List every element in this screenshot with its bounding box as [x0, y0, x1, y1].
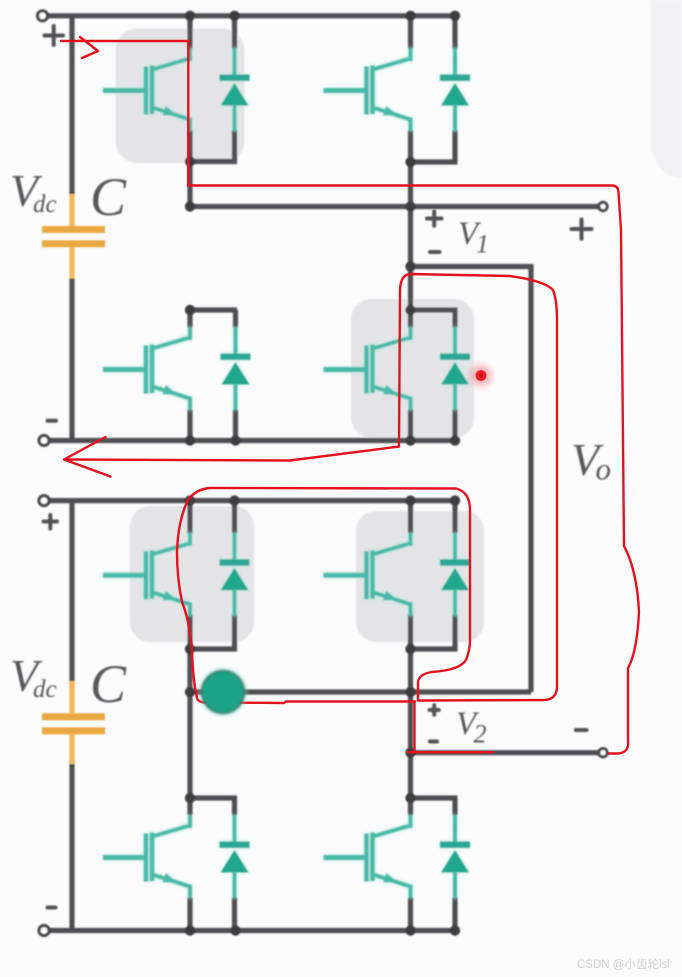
transistor Q4 (IGBT bottom-right bridge 1) — [324, 327, 411, 410]
transistor Q3 (IGBT bottom-left bridge 1) — [103, 327, 190, 410]
wire: diode D2 branch top — [452, 14, 457, 49]
polarity - bridge1 bottom-left — [48, 419, 57, 423]
wire: diode D5 branch top — [232, 499, 237, 534]
wire: leg Q8 emitter stub — [408, 898, 413, 931]
highlight box (top-left IGBT bridge 2) — [130, 506, 254, 642]
svg-text:2: 2 — [474, 720, 487, 749]
wire: node bar Q5/D5 — [187, 646, 237, 651]
terminal: V1 output — [599, 202, 607, 210]
wire: diode D4 branch — [452, 310, 457, 441]
polarity + V1 near rail — [427, 212, 442, 226]
red annotation: hidden segment under V2 rail — [470, 752, 604, 754]
svg-text:1: 1 — [476, 230, 489, 259]
wire: top rail bridge 2 — [44, 498, 458, 503]
wire: diode D5 branch bottom — [232, 615, 237, 650]
polarity + V1 right — [572, 220, 592, 239]
wire: diode D8 branch — [452, 798, 457, 931]
node dots bottom rail 2 — [185, 925, 195, 935]
node dot Q1 emitter — [185, 156, 195, 166]
red annotation: arrowhead bottom-left — [64, 437, 111, 477]
wire: diode D3 branch — [233, 310, 238, 441]
red annotation: arrow scribble top-left — [61, 37, 639, 754]
terminal: V2 output — [599, 749, 607, 757]
wire: left DC link vertical (bridge 2 lower) — [69, 763, 74, 931]
red indicator dot on D4 — [465, 360, 497, 392]
highlight box (top-right IGBT bridge 2) — [356, 511, 484, 642]
red annotation: visible tail over V2 rail — [408, 751, 493, 753]
terminal: DC+ bridge 2 — [39, 496, 49, 506]
wire: leg Q4 collector stub — [408, 310, 413, 328]
wire: leg Q8 collector stub — [408, 798, 413, 815]
red annotation: loop around bridge 2 top IGBTs — [177, 488, 470, 703]
terminal: DC- bridge 2 — [39, 926, 49, 936]
wire: diode D1 branch top — [232, 14, 237, 49]
polarity + top-left — [45, 26, 64, 45]
wire: node bar Q7/D7 — [187, 795, 237, 800]
svg-text:CSDN @小齿轮lsl: CSDN @小齿轮lsl — [577, 957, 670, 971]
svg-text:dc: dc — [33, 676, 57, 703]
capacitor C (bridge 2): leads — [69, 681, 74, 764]
capacitor C (bridge 2): plates — [42, 717, 105, 731]
wire: node bar Q2/D2 — [408, 159, 458, 164]
wire: leg Q4 emitter stub — [408, 410, 413, 441]
wire: leg Q7 collector stub — [187, 798, 192, 815]
diode D8 — [440, 815, 470, 898]
diode D1 — [220, 48, 250, 131]
diode D4 — [440, 327, 470, 410]
wire: left DC link vertical (bridge 2 upper) — [69, 501, 74, 682]
wire: bottom rail bridge 1 — [44, 438, 459, 443]
node: big teal junction dot — [198, 667, 248, 717]
terminal: DC+ bridge 1 — [38, 11, 48, 21]
node dots Q7/Q8 collectors — [185, 793, 195, 803]
node dots top rail 1 — [185, 11, 195, 21]
node dots bottom rail 1 — [185, 435, 195, 445]
wire: phase B link to vertical bus — [408, 264, 531, 269]
node dots top rail 2 — [185, 495, 195, 505]
highlight box S4' (lower-right IGBT bridge 1) — [351, 299, 474, 438]
wire: leg Q5 emitter to mid rail 2 — [187, 615, 192, 693]
wire: diode D7 branch — [232, 798, 237, 931]
red annotation: long outer loop to V2 terminal — [188, 186, 639, 754]
diode D3 — [221, 327, 251, 410]
polarity - V2 near rail — [430, 740, 437, 744]
wire: left DC link vertical (bridge 1 lower) — [69, 278, 74, 441]
transistor Q2 (IGBT top-right bridge 1) — [324, 48, 411, 131]
transistor Q5 (IGBT top-left bridge 2) — [103, 533, 190, 616]
wire: V1 output rail — [190, 204, 603, 209]
wire: V2 output rail — [409, 750, 603, 755]
light panel edge top-right — [651, 0, 682, 178]
polarity - bridge2 bottom-left — [48, 906, 56, 910]
wire: node bar Q3/D3 — [187, 307, 237, 312]
capacitor C (bridge 1): plates — [42, 230, 105, 244]
wire: leg bridge2 left to lower cell — [187, 692, 192, 798]
svg-text:o: o — [596, 452, 612, 487]
red annotation: loop around D4 and inner path down — [399, 274, 557, 701]
wire: diode D2 branch bottom — [452, 130, 457, 162]
transistor Q1 (IGBT top-left bridge 1) — [103, 48, 190, 131]
transistor Q6 (IGBT top-right bridge 2) — [324, 533, 411, 616]
wire: leg Q6 collector stub — [408, 499, 413, 534]
wire: bottom rail bridge 2 — [44, 928, 458, 933]
svg-text:C: C — [90, 654, 127, 714]
wire: leg Q1 emitter to V1 rail — [187, 130, 192, 207]
highlight box S1 (top-left IGBT bridge 1) — [116, 29, 245, 164]
wire: leg Q2 collector stub — [408, 14, 413, 49]
terminal: DC- bridge 1 — [39, 436, 49, 446]
red annotation: path from + terminal down — [61, 41, 188, 186]
wire: node bar Q4/D4 — [408, 307, 458, 312]
node dots Q3/Q4 collectors — [185, 305, 195, 315]
capacitor C (bridge 1): leads — [69, 194, 74, 279]
wire: leg Q1 collector stub — [187, 14, 192, 49]
wire: vertical bus V1- to V2+ — [528, 264, 533, 692]
wire: leg Q2 emitter down through V1 rail to Q4 — [408, 130, 413, 310]
wire: leg Q3 emitter stub — [187, 410, 192, 441]
node dots Q5/Q6 emitters — [185, 644, 195, 654]
red annotation: return line to lower-right IGBT — [64, 447, 399, 461]
transistor Q8 (IGBT bottom-right bridge 2) — [324, 815, 411, 898]
wire: diode D1 branch bottom — [232, 130, 237, 162]
node dot Q2 emitter — [405, 157, 415, 167]
polarity + V2 near rail — [430, 705, 439, 715]
wire: top rail bridge 1 — [43, 13, 458, 18]
polarity + bridge2 top-left — [44, 515, 58, 529]
wire: leg Q6 emitter down through V2 rail — [408, 615, 413, 799]
node dots V1 rail — [185, 201, 195, 211]
node dot phase B link — [405, 261, 415, 271]
red annotation: drop to V2 rail — [413, 702, 415, 753]
diode D6 — [440, 533, 470, 616]
wire: diode D6 branch top — [452, 499, 457, 534]
diode D2 — [440, 48, 470, 131]
wire: node bar Q8/D8 — [408, 795, 458, 800]
wire: mid rail bridge 2 — [190, 689, 531, 694]
polarity - V2 right — [576, 728, 587, 732]
wire: leg Q7 emitter stub — [187, 898, 192, 931]
wire: leg Q5 collector stub — [187, 499, 192, 534]
polarity - V1 near rail — [430, 250, 440, 254]
node dot V2 rail — [405, 748, 415, 758]
wire: node bar Q6/D6 — [408, 646, 458, 651]
diode D7 — [220, 815, 250, 898]
diode D5 — [220, 533, 250, 616]
wire: left DC link vertical (bridge 1 upper) — [69, 16, 74, 195]
wire: leg Q3 collector stub — [187, 310, 192, 328]
wire: node bar Q1/D1 — [187, 159, 237, 164]
wire: diode D6 branch bottom — [452, 615, 457, 650]
node dots mid rail 2 — [185, 687, 195, 697]
transistor Q7 (IGBT bottom-left bridge 2) — [103, 815, 190, 898]
svg-text:dc: dc — [33, 191, 57, 218]
svg-text:C: C — [90, 167, 127, 227]
